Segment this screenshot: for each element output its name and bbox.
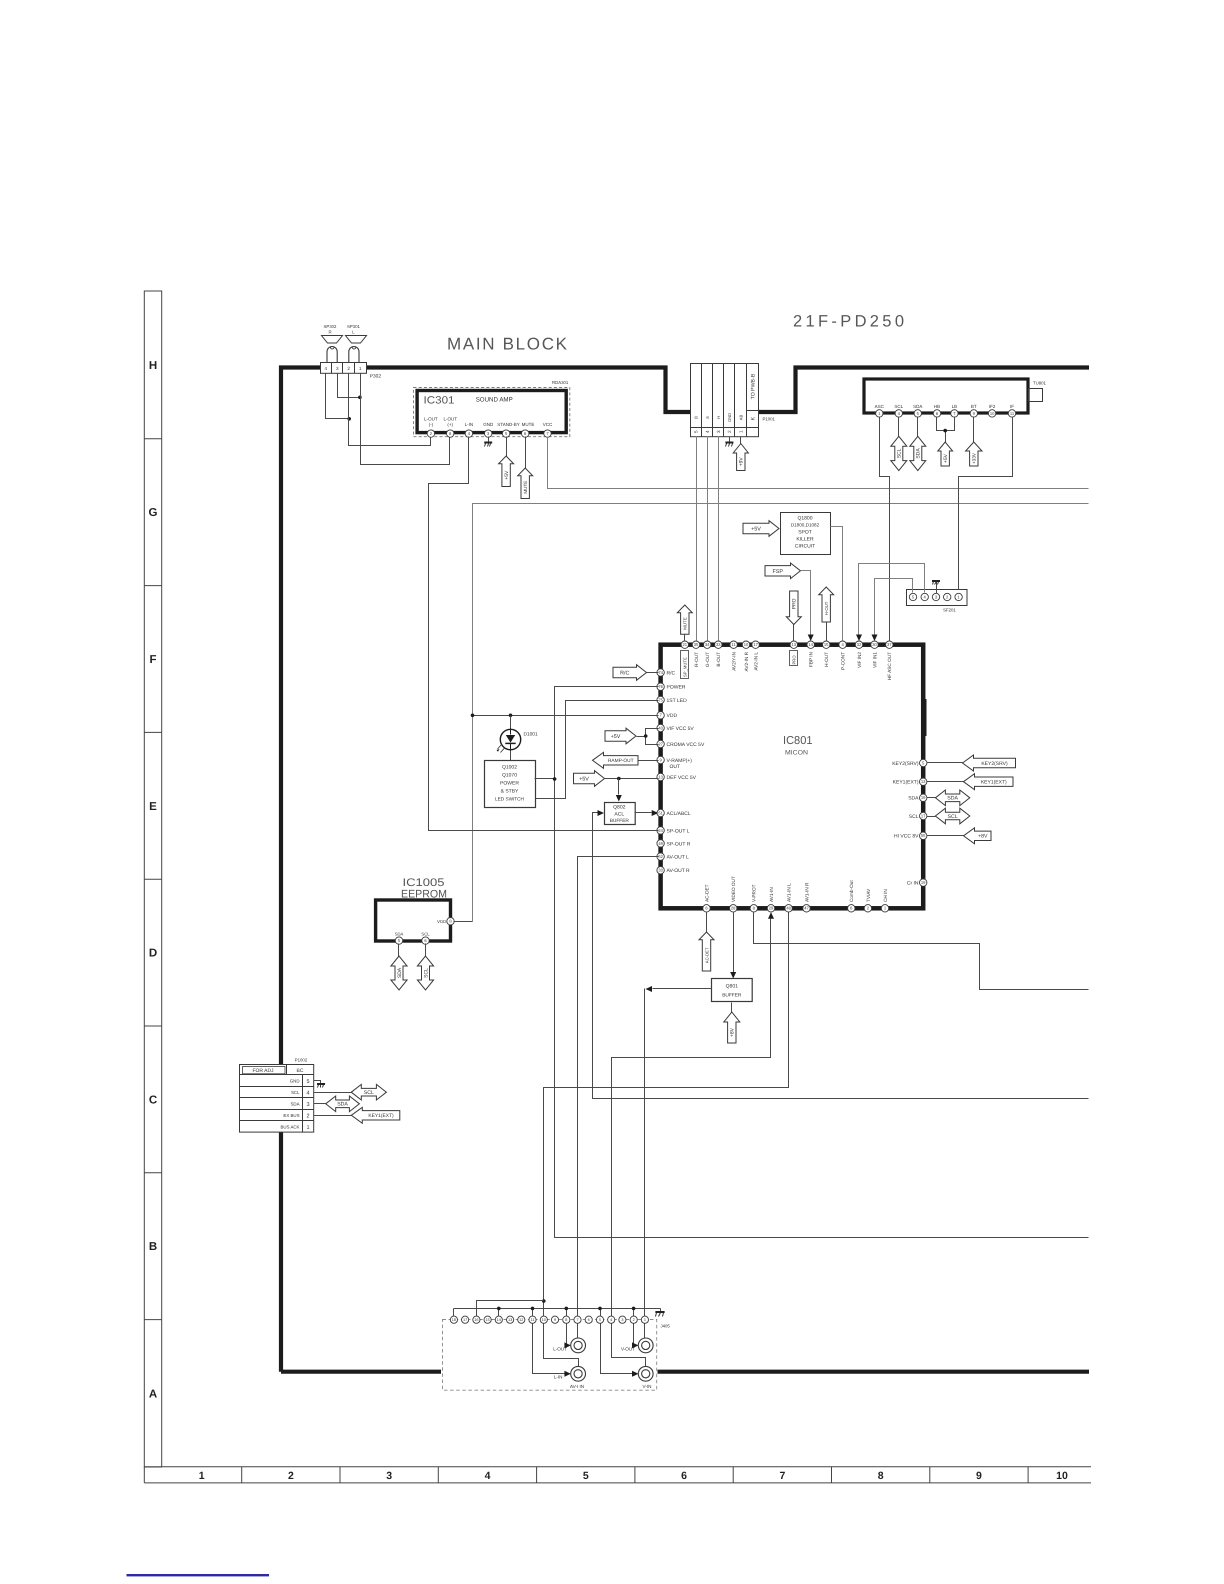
- svg-text:H: H: [716, 416, 721, 419]
- IC801 left pin 9 V-RAMP(+): [657, 756, 664, 763]
- svg-text:+5V: +5V: [579, 777, 589, 783]
- IC801 top pin 21 SP_MUTE: [681, 641, 688, 648]
- svg-text:GND: GND: [290, 1079, 300, 1084]
- svg-text:3: 3: [306, 1102, 309, 1108]
- IC801 left pin 7 VDD: [657, 712, 664, 719]
- J405 pin 3: [619, 1316, 626, 1323]
- +8V arrow at HI VCC: [927, 835, 964, 837]
- IC301 pin 3: [485, 430, 492, 437]
- svg-text:48: 48: [786, 906, 791, 911]
- IC801 right pin 5 KEY2(SRV): [920, 759, 927, 766]
- svg-text:AC-DET: AC-DET: [704, 947, 709, 963]
- svg-text:SDA: SDA: [913, 404, 922, 409]
- +8V arrow at Q801: [731, 1003, 733, 1013]
- wire P1001-4 to IC801 G-OUT: [707, 437, 709, 641]
- svg-text:SDA: SDA: [337, 1102, 348, 1108]
- svg-text:CROMA VCC 5V: CROMA VCC 5V: [667, 742, 705, 748]
- svg-text:& STBY: & STBY: [501, 789, 519, 795]
- svg-text:SCL: SCL: [897, 448, 903, 458]
- svg-text:CIRCUIT: CIRCUIT: [795, 544, 815, 550]
- SCL arrow at P1002: [314, 1092, 352, 1094]
- svg-text:2: 2: [347, 366, 350, 371]
- wire 1ST LED to Q1002: [535, 701, 659, 799]
- svg-text:MUTE: MUTE: [523, 481, 528, 494]
- svg-text:TU801: TU801: [1033, 381, 1047, 386]
- svg-text:P1001: P1001: [763, 417, 776, 422]
- IC1005 pin 6 SCL: [422, 937, 429, 944]
- svg-text:VIDEO OUT: VIDEO OUT: [731, 876, 736, 902]
- RCA jack V-OUT: [638, 1338, 653, 1353]
- svg-text:VCC: VCC: [543, 422, 553, 427]
- svg-text:CH IN: CH IN: [883, 889, 888, 902]
- svg-text:18: 18: [452, 1318, 456, 1322]
- wire VDD to D1001: [510, 716, 512, 729]
- svg-text:A: A: [149, 1388, 157, 1400]
- svg-text:17: 17: [463, 1318, 467, 1322]
- svg-text:76: 76: [658, 684, 663, 689]
- svg-text:H-OUT: H-OUT: [824, 601, 829, 615]
- svg-text:Q1002: Q1002: [502, 765, 517, 771]
- svg-text:VIF IN2: VIF IN2: [857, 652, 862, 668]
- svg-text:13: 13: [508, 1318, 512, 1322]
- svg-text:17: 17: [753, 642, 758, 647]
- svg-text:R/C: R/C: [667, 670, 676, 676]
- IC801 top pin 15 H-OUT: [823, 641, 830, 648]
- Q801 buffer: [712, 979, 753, 1002]
- J405 pin 16: [473, 1316, 480, 1323]
- svg-text:Cr IN: Cr IN: [907, 881, 919, 887]
- svg-text:+9V: +9V: [739, 457, 745, 467]
- svg-text:MUTE: MUTE: [522, 422, 535, 427]
- svg-text:9: 9: [554, 1318, 556, 1322]
- svg-text:15: 15: [824, 642, 829, 647]
- J405 pin 5: [596, 1316, 603, 1323]
- svg-text:4: 4: [705, 430, 710, 433]
- svg-text:Comb-Out: Comb-Out: [849, 880, 854, 902]
- svg-text:RDA301: RDA301: [552, 380, 569, 385]
- svg-text:KEY1(EXT): KEY1(EXT): [981, 780, 1007, 786]
- svg-text:13: 13: [921, 779, 926, 784]
- MUTE arrow at IC301 pin6: [525, 437, 527, 469]
- Q802 ACL buffer: [605, 803, 636, 825]
- svg-text:R/C: R/C: [620, 671, 629, 677]
- svg-text:(+): (+): [447, 422, 453, 427]
- svg-text:L-OUT: L-OUT: [424, 416, 438, 421]
- IC301 pin 5: [502, 430, 509, 437]
- svg-text:KEY2(SRV): KEY2(SRV): [981, 761, 1008, 767]
- svg-text:TO PWB-B: TO PWB-B: [751, 373, 757, 399]
- svg-text:17: 17: [921, 813, 926, 818]
- svg-text:1: 1: [359, 366, 362, 371]
- KEY1(EXT) arrow: [927, 781, 964, 783]
- svg-text:49: 49: [658, 841, 663, 846]
- J405 pin 9: [551, 1316, 558, 1323]
- svg-text:AV2-IN R: AV2-IN R: [744, 651, 749, 671]
- wire pin7 to L-OUT jack center: [577, 1324, 579, 1339]
- ground at P1002 GND: [314, 1081, 321, 1085]
- IC801 bottom pin 28 VIDEO OUT: [730, 905, 737, 912]
- KEY2(SRV) arrow: [927, 762, 963, 764]
- wire VDD long line: [473, 504, 1089, 922]
- junction dot: [617, 777, 621, 781]
- IC801 left pin 76 POWER: [657, 683, 664, 690]
- wire bus stub pin18: [453, 1309, 455, 1317]
- svg-text:14: 14: [497, 1318, 501, 1322]
- svg-text:POWER: POWER: [667, 685, 686, 691]
- svg-text:K: K: [751, 416, 757, 420]
- J405 pin 1: [641, 1316, 648, 1323]
- IC801 bottom pin 1 CH IN: [881, 905, 888, 912]
- arrowhead into ACL/ABCL pin: [652, 810, 659, 816]
- TU801 pin 5: [914, 410, 921, 417]
- svg-text:AV1-IN: AV1-IN: [769, 887, 774, 902]
- svg-text:FSP: FSP: [773, 569, 784, 575]
- svg-text:4: 4: [306, 1090, 309, 1096]
- svg-text:MAIN BLOCK: MAIN BLOCK: [447, 335, 568, 354]
- junction dot: [553, 777, 557, 781]
- RCA jack V-IN: [638, 1366, 653, 1381]
- connector SF201: [907, 590, 968, 606]
- svg-text:TV/AV: TV/AV: [866, 888, 871, 902]
- IC301 pin 6: [522, 430, 529, 437]
- TU801 pin 10: [988, 410, 995, 417]
- J405 pin 4: [608, 1316, 615, 1323]
- svg-text:F: F: [149, 654, 156, 666]
- SF201 pin 3: [932, 593, 939, 600]
- AC-DET arrow: [706, 912, 708, 933]
- wire TU801 IF to SF201 pin1: [959, 417, 1013, 594]
- arrowhead into Q802: [616, 795, 622, 802]
- IC801 top pin 32 VIF IN2: [855, 641, 862, 648]
- svg-text:5: 5: [599, 1318, 601, 1322]
- svg-text:VIF IN1: VIF IN1: [872, 652, 877, 668]
- svg-text:34: 34: [705, 642, 710, 647]
- svg-text:8: 8: [565, 1318, 567, 1322]
- J405 pin 13: [507, 1316, 514, 1323]
- svg-text:J405: J405: [661, 1324, 671, 1329]
- svg-text:STAND-BY: STAND-BY: [497, 422, 519, 427]
- Q1800 spot killer circuit block: [781, 513, 831, 555]
- arrowhead into AV-I IN jack: [564, 1371, 571, 1377]
- wire P1001-5 to IC801 R-OUT: [696, 437, 698, 641]
- svg-text:IF2: IF2: [989, 404, 996, 409]
- IC801 top pin 33 B-OUT: [715, 641, 722, 648]
- svg-text:AC-DET: AC-DET: [704, 884, 709, 902]
- J405 pin 7: [574, 1316, 581, 1323]
- svg-text:2: 2: [633, 1318, 635, 1322]
- svg-text:P1002: P1002: [295, 1058, 308, 1063]
- svg-text:ACL/ABCL: ACL/ABCL: [667, 811, 691, 817]
- J405 pin 12: [518, 1316, 525, 1323]
- svg-text:6: 6: [681, 1470, 687, 1482]
- svg-text:33: 33: [658, 868, 663, 873]
- svg-text:+33V: +33V: [972, 452, 977, 464]
- IC801 left pin 52 AV-OUT L: [657, 853, 664, 860]
- wire pin4 to V-IN jack center: [612, 1324, 646, 1367]
- IC301 pin 4: [465, 430, 472, 437]
- svg-text:D1800,D1082: D1800,D1082: [791, 523, 820, 528]
- TU801 pin 4: [895, 410, 902, 417]
- svg-text:PRO: PRO: [792, 655, 797, 665]
- svg-text:21: 21: [683, 642, 688, 647]
- Q1002 Q1070 power & stby LED switch block: [485, 761, 536, 808]
- IC801 top pin 4 P-CONT: [839, 641, 846, 648]
- IC801 top pin 35 R-OUT: [692, 641, 699, 648]
- svg-text:SF201: SF201: [943, 608, 956, 613]
- svg-text:HB: HB: [934, 404, 940, 409]
- SF201 pin 2: [944, 593, 951, 600]
- svg-text:IC301: IC301: [424, 395, 455, 407]
- wire pin2 to V-OUT jack: [633, 1309, 635, 1346]
- svg-text:AV-OUT R: AV-OUT R: [667, 868, 691, 874]
- wire pin1 to V-OUT jack center: [644, 1324, 646, 1339]
- main block border: [281, 368, 1089, 1372]
- wire VIDEO OUT to Q801: [733, 912, 735, 973]
- wire VCC long line from IC301 pin7: [548, 437, 1089, 489]
- IC801 left pin 49 SP-OUT R: [657, 840, 664, 847]
- wire +5V to Q802: [618, 779, 620, 795]
- svg-text:Q1070: Q1070: [502, 773, 517, 779]
- svg-text:SCL: SCL: [894, 404, 903, 409]
- IC801 left pin 75 1ST LED: [657, 696, 664, 703]
- IC801 top pin 10 AV2-IN R: [742, 641, 749, 648]
- wire P302-3 to L-OUT(+) net: [338, 374, 360, 398]
- SDA arrow at P1002: [314, 1103, 326, 1105]
- svg-text:P302: P302: [370, 374, 382, 380]
- SCL arrow at EEPROM: [425, 944, 427, 957]
- svg-text:21F-PD250: 21F-PD250: [793, 313, 904, 331]
- SF201 pin 1: [955, 593, 962, 600]
- SDA arrow at TU801: [917, 417, 919, 437]
- IC801 top pin 13 PRO: [790, 641, 797, 648]
- svg-text:AV2/Y-IN: AV2/Y-IN: [732, 652, 737, 671]
- svg-text:3: 3: [386, 1470, 392, 1482]
- svg-text:AV-OUT L: AV-OUT L: [667, 855, 690, 861]
- junction dot: [598, 1307, 602, 1311]
- IC801 bottom pin 48 AV1-IN L: [785, 905, 792, 912]
- svg-text:+5V: +5V: [611, 734, 621, 740]
- svg-text:V-IN: V-IN: [643, 1384, 652, 1389]
- IC801 left pin 74 R/C: [657, 669, 664, 676]
- junction dot: [531, 1307, 535, 1311]
- svg-text:SCL: SCL: [421, 932, 430, 937]
- IC801 top pin 37 HF ASC OUT: [886, 641, 893, 648]
- svg-text:10: 10: [1056, 1470, 1068, 1482]
- wire AV-OUT L to J405 pin7: [578, 857, 659, 1317]
- TU801 pin 1: [876, 410, 883, 417]
- +33V arrow at TU801 BT: [973, 417, 975, 443]
- svg-text:FBP IN: FBP IN: [809, 652, 814, 667]
- svg-text:+8V: +8V: [978, 834, 988, 840]
- svg-text:SP301: SP301: [347, 324, 361, 329]
- connector P1001 TO PWB-B: [691, 364, 759, 437]
- svg-text:Q802: Q802: [613, 805, 625, 811]
- svg-text:14: 14: [808, 642, 813, 647]
- svg-text:2: 2: [727, 430, 732, 433]
- PRO arrow at IC801: [786, 591, 801, 625]
- IC801 bottom pin 2 TV/AV: [864, 905, 871, 912]
- svg-text:13: 13: [658, 774, 663, 779]
- svg-text:SCL: SCL: [948, 814, 958, 820]
- wire spot killer to IC801 P-CONT: [831, 527, 843, 641]
- svg-text:B: B: [149, 1241, 157, 1253]
- junction dot: [471, 714, 475, 718]
- svg-text:AV1-IN R: AV1-IN R: [804, 882, 809, 902]
- RAMP-OUT arrow: [593, 752, 639, 768]
- svg-text:V-PROT: V-PROT: [752, 884, 757, 902]
- svg-text:R: R: [328, 330, 331, 335]
- svg-text:27: 27: [658, 741, 663, 746]
- svg-text:KEY1(EXT): KEY1(EXT): [368, 1113, 394, 1119]
- svg-text:28: 28: [731, 906, 736, 911]
- svg-text:MUTE: MUTE: [683, 617, 688, 630]
- svg-text:SDA: SDA: [908, 796, 919, 802]
- wire P302-4 to L-OUT(-) net: [326, 374, 350, 419]
- J405 pin 8: [563, 1316, 570, 1323]
- IC801 right pin 17 SCL: [920, 812, 927, 819]
- arrowhead into FBP IN: [808, 635, 814, 642]
- TU801 pin 7: [951, 410, 958, 417]
- junction dot: [509, 714, 513, 718]
- junction dot: [565, 1307, 569, 1311]
- SDA arrow at IC801: [927, 797, 936, 799]
- SCL arrow at TU801: [898, 417, 900, 437]
- svg-text:SDA: SDA: [947, 796, 958, 802]
- J405 pin 18: [450, 1316, 457, 1323]
- arrowhead into V-IN jack: [632, 1371, 639, 1377]
- svg-text:SDA: SDA: [290, 1102, 299, 1107]
- svg-text:Q1800: Q1800: [797, 516, 812, 522]
- svg-text:Q801: Q801: [726, 984, 738, 990]
- SCL arrow at IC801: [927, 816, 936, 818]
- svg-text:H-OUT: H-OUT: [824, 652, 829, 667]
- svg-text:SPOT: SPOT: [798, 530, 812, 536]
- svg-text:B: B: [694, 416, 699, 419]
- IC301 pin 7: [544, 430, 551, 437]
- arrowhead into Q801: [730, 972, 736, 979]
- wire SP-OUT L to IC301 L-IN: [429, 437, 659, 831]
- svg-text:PRO: PRO: [792, 598, 798, 609]
- svg-text:P-CONT: P-CONT: [841, 652, 846, 670]
- svg-text:51: 51: [658, 810, 663, 815]
- svg-text:ASC: ASC: [875, 404, 885, 409]
- connector P302: [321, 363, 367, 374]
- svg-text:30: 30: [872, 642, 877, 647]
- svg-text:74: 74: [658, 670, 663, 675]
- svg-text:4: 4: [485, 1470, 491, 1482]
- svg-text:3: 3: [621, 1318, 623, 1322]
- svg-text:ACL: ACL: [614, 812, 624, 818]
- svg-text:6: 6: [588, 1318, 590, 1322]
- svg-text:G: G: [149, 507, 158, 519]
- svg-text:33: 33: [716, 642, 721, 647]
- RCA jack AV-I IN (L-IN): [571, 1366, 586, 1381]
- IC801 bottom pin 6 AC-DET: [703, 905, 710, 912]
- IC801 right pin 13 KEY1(EXT): [920, 778, 927, 785]
- J405 pin 6: [585, 1316, 592, 1323]
- svg-text:47: 47: [804, 906, 809, 911]
- svg-text:1: 1: [199, 1470, 205, 1482]
- svg-text:4: 4: [325, 366, 328, 371]
- IC801 bottom pin 8 V-PROT: [750, 905, 757, 912]
- svg-text:IF: IF: [1010, 404, 1014, 409]
- RCA jack L-OUT: [571, 1338, 586, 1353]
- svg-text:POWER: POWER: [500, 781, 519, 787]
- svg-text:V-OUT: V-OUT: [621, 1346, 635, 1351]
- svg-text:B-OUT: B-OUT: [716, 652, 721, 667]
- svg-text:1: 1: [739, 430, 744, 433]
- svg-text:BC: BC: [297, 1068, 304, 1074]
- svg-text:IC1005: IC1005: [403, 877, 445, 889]
- TU801 pin 6: [933, 410, 940, 417]
- wire SF201 pin5 to VIF IN1: [875, 579, 913, 636]
- svg-text:H: H: [149, 360, 157, 372]
- svg-text:5: 5: [694, 430, 699, 433]
- svg-text:1ST LED: 1ST LED: [667, 698, 688, 704]
- wire P302-1 to IC301 pin8: [361, 374, 450, 465]
- IC801 top pin 30 VIF IN1: [871, 641, 878, 648]
- J405 pin 17: [462, 1316, 469, 1323]
- svg-text:1: 1: [644, 1318, 646, 1322]
- svg-text:GND: GND: [483, 422, 494, 427]
- IC801 left pin 51 ACL/ABCL: [657, 809, 664, 816]
- IC1005 pin 5 SDA: [395, 937, 402, 944]
- svg-text:AB: AB: [738, 415, 743, 421]
- arrowhead into VIF IN2: [856, 635, 862, 642]
- svg-text:D: D: [149, 948, 157, 960]
- svg-text:G-OUT: G-OUT: [705, 652, 710, 667]
- svg-text:SDA: SDA: [916, 448, 922, 459]
- svg-text:43: 43: [658, 725, 663, 730]
- svg-text:11: 11: [531, 1318, 535, 1322]
- junction dot: [358, 396, 362, 400]
- svg-text:L-IN: L-IN: [554, 1375, 563, 1380]
- svg-text:11: 11: [731, 642, 736, 647]
- KEY1(EXT) arrow at P1002: [314, 1115, 352, 1117]
- svg-text:19: 19: [921, 795, 926, 800]
- wire VDD to EEPROM: [454, 921, 473, 923]
- svg-text:OUT: OUT: [670, 764, 681, 770]
- wire bracket VIF VCC / CROMA VCC: [646, 729, 659, 745]
- junction dot: [542, 1299, 546, 1303]
- svg-text:D1001: D1001: [524, 732, 538, 738]
- IC301 SOUND AMP block: [414, 388, 570, 437]
- +5V arrow at IC301 pin5: [506, 437, 508, 457]
- wire TU801 ASC to IC801 HF ASC OUT: [880, 417, 890, 641]
- J405 ground bus: [454, 1308, 661, 1310]
- svg-text:32: 32: [857, 642, 862, 647]
- IC801 right pin 19 SDA: [920, 794, 927, 801]
- SF201 pin 4: [921, 593, 928, 600]
- +5V arrow into spot killer: [743, 521, 779, 537]
- svg-text:3: 3: [336, 366, 339, 371]
- svg-text:SOUND AMP: SOUND AMP: [476, 397, 513, 404]
- svg-text:BUFFER: BUFFER: [610, 818, 630, 824]
- SDA arrow at EEPROM: [398, 944, 400, 957]
- svg-text:8: 8: [878, 1470, 884, 1482]
- wire AV1-IN from J405 pin4: [768, 912, 774, 919]
- svg-text:+5V: +5V: [504, 470, 510, 480]
- svg-text:SCL: SCL: [364, 1090, 374, 1096]
- svg-text:IC801: IC801: [783, 735, 813, 747]
- IC801 left pin 43 VIF VCC 5V: [657, 724, 664, 731]
- svg-text:AV-I IN: AV-I IN: [570, 1384, 584, 1389]
- svg-text:KILLER: KILLER: [796, 537, 814, 543]
- MUTE arrow at IC801 SP_MUTE: [677, 605, 692, 634]
- svg-text:SP-OUT L: SP-OUT L: [667, 828, 690, 834]
- J405 pin 10: [540, 1316, 547, 1323]
- svg-text:13: 13: [792, 642, 797, 647]
